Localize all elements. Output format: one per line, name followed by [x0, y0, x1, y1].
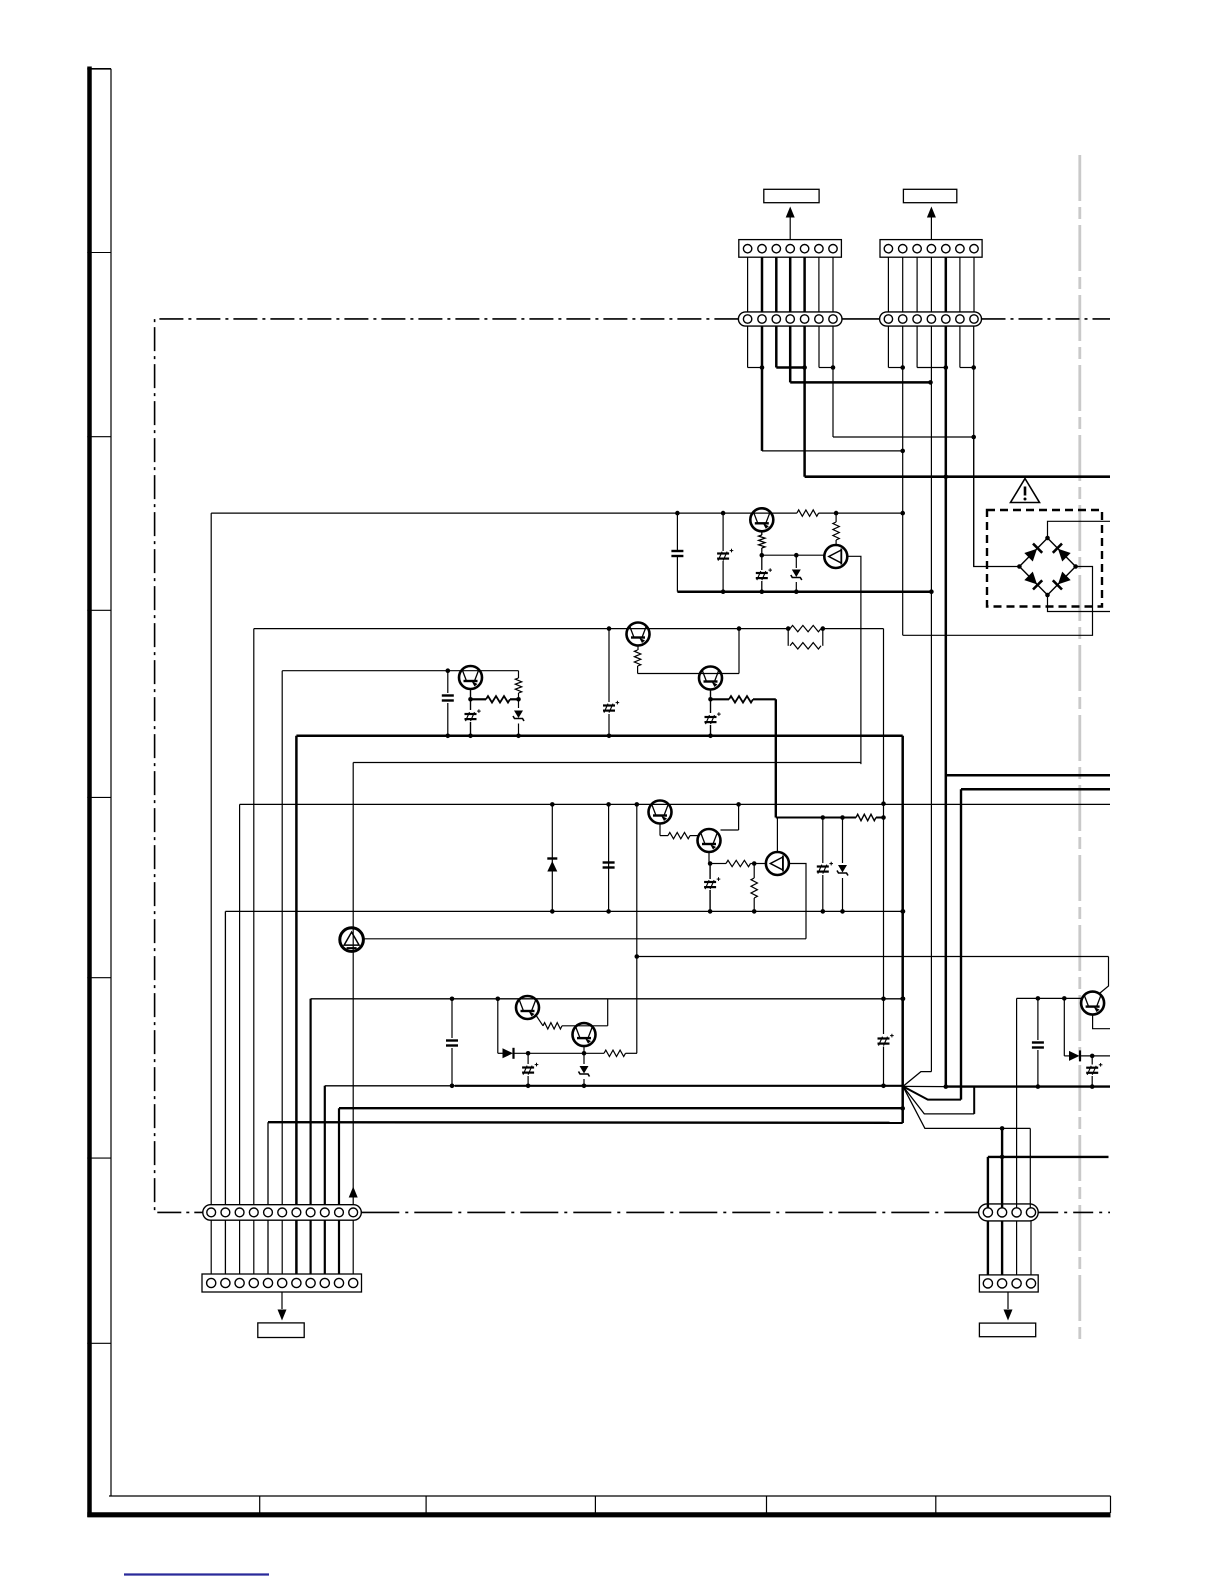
wire Q-C3 emitter right and down [789, 864, 806, 939]
wire w9 vertical (thick) [324, 1086, 326, 1205]
junction x883/line817 [881, 815, 886, 820]
thick line y=775.2 to right edge [946, 774, 1110, 777]
top connector 1 pin 4 [786, 245, 794, 253]
transistor Q-E1 [1081, 992, 1104, 1015]
bottom-left connector pin 8 [306, 1278, 315, 1287]
wire s2-p1 jog right [888, 367, 902, 369]
bus merge link to s2-p5 (thick) [903, 1085, 946, 1087]
electrolytic capacitor C+ (Q-A2 emitter) [710, 690, 712, 714]
board boundary dash-dot bottom-middle [361, 1211, 978, 1213]
bridge diode top-right [1053, 544, 1071, 562]
bridge diode bottom-right [1053, 571, 1071, 589]
arrow to label (top connector 2) [930, 215, 932, 240]
thick ground rail block B y=591.7 [677, 590, 931, 593]
arrow to label (bottom-right connector) [1007, 1292, 1009, 1309]
resistor R (Q-C2 to Q-C3) [710, 863, 726, 865]
junction x883/rail804 [881, 801, 886, 806]
top connector 2 pin 5 [942, 245, 950, 253]
op-amp style circle-triangle device U1 [340, 928, 364, 952]
connector CN? label box (top-right) [903, 189, 956, 202]
resistor R (Q-D1 emitter) [537, 1016, 544, 1026]
transistor Q-C2 [698, 829, 721, 852]
vertical x=974.2 down from rail [973, 1087, 975, 1114]
bottom-left connector pin 5 [263, 1278, 272, 1287]
wire Q-A1 to Q-A2 base [638, 673, 739, 675]
diode D (block E) [1063, 998, 1065, 1056]
border tick 5 [87, 977, 111, 979]
junction s2-p1/p2 [900, 365, 905, 370]
line y=1113.9 back to merge [903, 1086, 974, 1114]
line y=1128.4 from merge to bottom connector [903, 1086, 1030, 1128]
wire x=1030.3 down to stadium pin4 [1029, 1128, 1031, 1208]
junction s2-p3/p5 [944, 365, 949, 370]
wire stadium to header pin 2 [224, 1220, 226, 1274]
top connector 1 stadium pin 6 [815, 315, 823, 323]
transistor Q-C3 [766, 852, 789, 875]
line y=1053.3 [498, 1052, 503, 1054]
bottom-left connector pin 6 [278, 1278, 287, 1287]
bottom-left stadium pin 7 [292, 1208, 301, 1217]
top connector 2 stadium pin 3 [913, 315, 921, 323]
wire stadium to header pin 10 [338, 1220, 340, 1274]
top connector 2 pin 3 [913, 245, 921, 253]
border tick 6 [87, 1157, 111, 1159]
electrolytic capacitor C+ (block B) [722, 513, 724, 551]
wire: top connector1 pin4 to stadium [789, 257, 792, 312]
top connector 2 board-edge stadium [880, 312, 982, 326]
junction s1-p6/p7 [831, 365, 836, 370]
diode D (block D) [497, 999, 499, 1054]
wire stadium to header pin 7 [295, 1220, 298, 1274]
wire w4 vertical [253, 629, 255, 1205]
net line y=956.5 to right [637, 956, 1109, 958]
diode D (block C) [551, 804, 553, 911]
junction rail911/thick vertical [901, 909, 906, 914]
bottom title band top line [109, 1495, 1111, 1497]
resistor R on rail 513 [797, 510, 819, 516]
capacitor C (block B left) [676, 513, 678, 551]
resistor R on line 817.5 [856, 814, 876, 820]
top connector 1 stadium pin 4 [786, 315, 794, 323]
thick link y=1099.6 to x=961 [903, 1086, 961, 1099]
thick link w/ resistor (Q-A2 emitter) [711, 698, 730, 700]
top connector 1 stadium pin 1 [743, 315, 751, 323]
bottom-right connector pin header [979, 1275, 1038, 1292]
electrolytic capacitor C+ (x=528.1) [527, 1053, 529, 1064]
wire s2-p3 jog right [917, 367, 946, 369]
page border: thick outer left edge [87, 67, 92, 1518]
electrolytic capacitor C+ (x=883.5 between nets) [878, 1037, 890, 1039]
wire: top connector2 pin7 to stadium [973, 257, 975, 312]
junction x637/line957 [635, 954, 640, 959]
wire s2-p5 down (thick) [945, 326, 948, 1087]
zener diode ZD (x=842.5) [842, 818, 844, 864]
wire stadium to header pin 8 [310, 1220, 312, 1274]
wire s2-p6 down [959, 326, 961, 367]
wire: top connector1 pin1 to stadium [747, 257, 749, 312]
wire net to bridge AC1 [833, 436, 974, 438]
transistor Q-D2 [573, 1023, 596, 1046]
wire s2-p1 down [887, 326, 889, 367]
bus merge jog from s2-p4 [903, 1072, 931, 1087]
transistor Q-A1 [627, 623, 650, 646]
wire s2-p6 jog right [960, 367, 974, 369]
wire w2 vertical [224, 911, 226, 1204]
arrow to label (top connector 1) [789, 215, 791, 240]
wire stadium to header pin 4 (bottom-right) [1030, 1221, 1032, 1275]
wire: top connector2 pin3 to stadium [916, 257, 918, 312]
wire w8 vertical (thick) [310, 999, 312, 1205]
wire stadium to header pin 4 [253, 1220, 255, 1274]
net rail y=804 from w3 to right edge [240, 803, 1110, 805]
wire: top connector1 pin2 to stadium [761, 257, 764, 312]
resistor R (on line 1053.3) [604, 1050, 626, 1056]
connector label box (bottom-right) [979, 1323, 1035, 1337]
transistor Q-A2 [699, 667, 722, 690]
bottom-right connector pin 4 [1026, 1279, 1035, 1288]
thick ground rail block A y=735.8 from w7 [296, 735, 902, 738]
wire bridge right node loop to net s2-p2 [903, 567, 1093, 636]
thick line y=1122.2 from w5 [268, 1121, 903, 1124]
transistor Q-B2 [824, 545, 847, 568]
junction thick supply / s2-p5 [944, 474, 949, 479]
wire Q-E1 emitter to right edge [1093, 1015, 1110, 1029]
wire: top connector2 pin4 to stadium [930, 257, 932, 312]
junction s1-p1/p2 [760, 365, 765, 370]
wire bridge bottom node to right edge [1048, 595, 1111, 612]
resistor R vertical (block A) [518, 671, 520, 678]
wire s1-p3 jog right (thick) [776, 366, 804, 369]
top connector 2 pin 1 [884, 245, 892, 253]
wire bridge left node (AC1) [974, 437, 1020, 567]
net rail y=628.6 from w4 [254, 628, 790, 630]
capacitor C (block E) [1037, 998, 1039, 1040]
wire stadium to header pin 1 (bottom-right) [987, 1221, 989, 1275]
wire Q-C2 collector to rail 804 [738, 804, 740, 830]
bottom-left stadium pin 3 [235, 1208, 244, 1217]
bottom-left stadium pin 11 [349, 1208, 358, 1217]
wire stadium to header pin 1 [210, 1220, 212, 1274]
bottom-right stadium pin 1 [983, 1208, 992, 1217]
wire: top connector1 pin6 to stadium [818, 257, 820, 312]
wire x=1002.1 down to stadium pin2 (thick) [1001, 1128, 1003, 1208]
junction line999/thick vert [901, 997, 906, 1002]
electrolytic capacitor C+ (x=609) [608, 629, 610, 702]
wire s1-p7 down [832, 326, 834, 437]
diode bridge D? diamond [1019, 538, 1075, 595]
wire: top connector2 pin5 to stadium [945, 257, 948, 312]
resistor R (Q-B1 emitter) [761, 531, 763, 535]
wire w11 vertical [352, 763, 354, 1205]
bottom-right stadium pin 3 [1012, 1208, 1021, 1217]
wire Q-C3 collector up to line 817.5 [776, 818, 778, 853]
border tick 2 [87, 436, 111, 438]
wire w7 vertical (thick) [295, 736, 298, 1205]
wire bridge top node to right edge [1048, 521, 1111, 538]
wire s1-p4 cross link (thick) [790, 381, 930, 384]
top connector 2 stadium pin 2 [899, 315, 907, 323]
bottom-right stadium pin 4 [1026, 1208, 1035, 1217]
wire: top connector1 pin7 to stadium [832, 257, 834, 312]
top connector 1 stadium pin 5 [800, 315, 808, 323]
wire: top connector1 pin3 to stadium [775, 257, 778, 312]
wire s2-p4 long vertical down [930, 326, 932, 1072]
wire stadium to header pin 3 [239, 1220, 241, 1274]
junction s1-p3/p5 [802, 365, 807, 370]
thick rail y=1086.8 to right edge [946, 1085, 1110, 1087]
top connector 2 pin header [880, 240, 982, 258]
bottom-left connector pin 11 [349, 1278, 358, 1287]
resistor R (Q-A1 emitter) [637, 646, 639, 651]
top connector 1 pin 2 [758, 245, 766, 253]
thick line y=789.3 corner at x=961 [961, 788, 1110, 791]
signal direction arrow on w11 [349, 1187, 358, 1198]
wire s1-p5 down (thick) [803, 326, 806, 477]
wire s2-p2 down [902, 326, 904, 635]
top connector 2 stadium pin 1 [884, 315, 892, 323]
net rail y=513 from w1 [211, 512, 797, 514]
bottom-right board-edge stadium connector [979, 1204, 1039, 1221]
line y=817.5 (thick-ish) [776, 817, 856, 819]
electrolytic capacitor C+ (Q-B1 emitter) [756, 572, 768, 574]
wire: top connector1 pin5 to stadium [803, 257, 806, 312]
top connector 1 pin 6 [815, 245, 823, 253]
page border: thick outer bottom edge [87, 1512, 1110, 1517]
bottom-right stadium pin 2 [998, 1208, 1007, 1217]
wire s1-p4 down (thick) [789, 326, 792, 382]
board boundary dash-dot between top connectors [842, 318, 880, 320]
base rail y=670.7 from w6 [282, 670, 518, 672]
board boundary dash-dot top-right [982, 318, 1111, 320]
thick line y=1156.9 to right edge [988, 1156, 1109, 1158]
blue footer rule [124, 1573, 269, 1575]
wire w10 vertical (thick) [338, 1108, 340, 1205]
top connector 2 pin 6 [956, 245, 964, 253]
resistor R (Q-B2 collector) [835, 513, 837, 522]
bottom-right connector pin 3 [1012, 1279, 1021, 1288]
bottom-left connector pin header [202, 1274, 362, 1292]
top connector 1 pin header [739, 240, 842, 258]
wire stadium to header pin 2 (bottom-right) [1001, 1221, 1003, 1275]
electrolytic capacitor C+ (x=822.8) [822, 818, 824, 864]
top connector 2 pin 2 [899, 245, 907, 253]
wire: top connector2 pin6 to stadium [959, 257, 961, 312]
board boundary dash-dot (top-left) [155, 319, 739, 1213]
top connector 1 pin 7 [829, 245, 837, 253]
connector label box (bottom-left) [258, 1323, 304, 1338]
junction rail592/s2-p4 [929, 589, 934, 594]
transistor Q-D1 [516, 996, 539, 1019]
capacitor C (block A left) [447, 671, 449, 693]
wire: top connector2 pin1 to stadium [887, 257, 889, 312]
title band divider 5 [935, 1496, 937, 1513]
wire s1-p6 down [818, 326, 820, 367]
wire s1-p1 down [747, 326, 749, 367]
wire line957 corner down to Q-E1 [1100, 957, 1109, 994]
bottom-left connector pin 1 [207, 1278, 216, 1287]
border tick 7 [87, 1342, 111, 1344]
bridge node bottom [1045, 593, 1050, 598]
border tick 1 [87, 252, 111, 254]
junction x883 end [881, 1084, 886, 1089]
thick link w/ resistor (Q-A3) [471, 698, 487, 700]
bottom-left connector pin 3 [235, 1278, 244, 1287]
zener diode ZD (block A) [514, 711, 523, 719]
top connector 1 stadium pin 3 [772, 315, 780, 323]
top connector 2 pin 4 [927, 245, 935, 253]
wire Q-C2 emitter node [708, 852, 710, 864]
arrow to label (bottom-left connector) [281, 1292, 283, 1309]
bottom-left connector pin 10 [334, 1278, 343, 1287]
base link to Q-B2 [762, 554, 824, 556]
wire: top connector2 pin2 to stadium [902, 257, 904, 312]
junction zener tap [794, 553, 799, 558]
wire w5 vertical [267, 1122, 269, 1205]
junction s2-p6/p7 [971, 365, 976, 370]
vertical x=637 from rail804 down [636, 804, 638, 1053]
resistor R vertical (block C) [751, 878, 757, 898]
wire stadium to header pin 3 (bottom-right) [1016, 1221, 1018, 1275]
border tick 4 [87, 796, 111, 798]
bottom title band right edge [1110, 1496, 1112, 1513]
wire stadium to header pin 11 [352, 1220, 354, 1274]
thick supply line y=476.7 to right edge [805, 475, 1110, 478]
top connector 2 pin 7 [970, 245, 978, 253]
electrolytic capacitor C+ (Q-A3 emitter) [470, 689, 472, 710]
wire Q-B2 out right then down [847, 556, 861, 764]
wire stadium to header pin 5 [267, 1220, 269, 1274]
transistor Q-A3 [459, 666, 482, 689]
wire w6 vertical [281, 671, 283, 1205]
bottom-left connector pin 2 [221, 1278, 230, 1287]
parallel resistor pair on rail 628.6 [790, 625, 821, 631]
bottom-left stadium pin 9 [320, 1208, 329, 1217]
wire net-A horizontal y=451 [762, 450, 903, 452]
junction net-A / s2-p2 [900, 449, 905, 454]
zener diode ZD (below Q-D2) [583, 1047, 585, 1065]
transistor Q-C1 [649, 801, 672, 824]
bottom-left stadium pin 6 [278, 1208, 287, 1217]
wire Q-A2 collector up to rail [738, 629, 740, 674]
thick line y=1108.2 from w10 [339, 1107, 903, 1109]
net line y=998.8 from w8 [311, 998, 903, 1000]
net line y=998.4 (block E) [1017, 997, 1082, 999]
wire s2-p7 down to bridge AC1 [973, 326, 975, 566]
connector CN? label box (top-left) [764, 189, 819, 202]
board boundary dash-dot bottom-right [1038, 1211, 1110, 1213]
junction Q-B1 emitter node [760, 553, 765, 558]
bottom-right connector pin 1 [983, 1279, 992, 1288]
top connector 2 stadium pin 5 [942, 315, 950, 323]
transistor Q-B1 [750, 508, 773, 531]
bottom-left stadium pin 1 [207, 1208, 216, 1217]
title band divider 1 [259, 1496, 261, 1513]
warning triangle symbol [1011, 479, 1040, 503]
wire w1 vertical [210, 513, 212, 1205]
capacitor C (block C) [608, 804, 610, 911]
page fold dash-dot line (gray) [1078, 155, 1081, 1340]
rail y=1085.8 from w9 to merge [325, 1085, 455, 1087]
thick vertical x=961 [960, 789, 962, 1099]
capacitor C (block D) [451, 999, 453, 1038]
page border: top cap [87, 68, 111, 70]
bridge node left [1017, 564, 1022, 569]
wire s1-p6 jog right [819, 367, 833, 369]
bottom-left connector pin 7 [292, 1278, 301, 1287]
bottom-left stadium pin 4 [249, 1208, 258, 1217]
bridge diode top-left [1024, 544, 1042, 562]
page border: inner thin vertical [110, 69, 112, 1496]
diode bridge dashed outline box [987, 510, 1102, 607]
top connector 2 stadium pin 6 [956, 315, 964, 323]
title band divider 3 [594, 1496, 596, 1513]
top connector 1 pin 3 [772, 245, 780, 253]
top connector 1 stadium pin 7 [829, 315, 837, 323]
resistor R (Q-C1 to Q-C2) [659, 824, 661, 836]
top connector 1 stadium pin 2 [758, 315, 766, 323]
wire x=1016.6 stadium pin3 up to block E [1016, 998, 1018, 1208]
zener diode ZD (block B) [795, 555, 797, 568]
bridge diode bottom-left [1024, 571, 1042, 589]
top connector 1 board-edge stadium [738, 312, 842, 326]
bottom-left board-edge stadium connector [203, 1205, 361, 1221]
corner down x=607.7 [607, 999, 609, 1026]
wire s2-p3 down [916, 326, 918, 367]
bottom-left stadium pin 8 [306, 1208, 315, 1217]
electrolytic capacitor C+ (Q-C2 emitter) [709, 864, 711, 880]
top connector 1 pin 1 [743, 245, 751, 253]
bottom-left connector pin 4 [249, 1278, 258, 1287]
junction rail513/s2-p2 [900, 511, 905, 516]
junction with s2-p7 [971, 435, 976, 440]
wire rail628 corner down at x=883.5 [883, 629, 885, 1034]
top connector 2 stadium pin 4 [927, 315, 935, 323]
wire stadium to header pin 9 [324, 1220, 326, 1274]
bridge node right [1073, 564, 1078, 569]
wire U1 output to Q-C3 [364, 938, 807, 940]
wire s1-p2 down (thick) [761, 326, 764, 451]
line y=1055.9 to right edge [1080, 1055, 1110, 1057]
wire stadium to header pin 6 [281, 1220, 283, 1274]
electrolytic capacitor C+ (block E) [1091, 1056, 1093, 1065]
bottom-right connector pin 2 [998, 1279, 1007, 1288]
border tick 3 [87, 609, 111, 611]
wire w11 horizontal y=762.5 [353, 762, 861, 764]
title band divider 4 [766, 1496, 768, 1513]
wire w3 vertical [239, 804, 241, 1204]
junction x883/line999 [881, 997, 886, 1002]
thick vertical from resistor down [775, 699, 777, 817]
wire x=987.9 stadium pin1 up to line 1156.9 (thick) [987, 1157, 989, 1208]
title band divider 2 [425, 1496, 427, 1513]
bottom-left stadium pin 2 [221, 1208, 230, 1217]
wire s1-p1 jog right [748, 367, 762, 369]
bridge node top [1045, 536, 1050, 541]
thick vertical trunk x=903 [901, 736, 904, 1123]
junction s1-p4 to s2-p4 [928, 380, 933, 385]
top connector 1 pin 5 [800, 245, 808, 253]
bottom-left connector pin 9 [320, 1278, 329, 1287]
top connector 2 stadium pin 7 [970, 315, 978, 323]
wire s1-p3 down (thick) [775, 326, 778, 367]
ground rail y=911.4 from w2 [225, 910, 903, 912]
bottom-left stadium pin 10 [335, 1208, 344, 1217]
bottom-left stadium pin 5 [264, 1208, 273, 1217]
